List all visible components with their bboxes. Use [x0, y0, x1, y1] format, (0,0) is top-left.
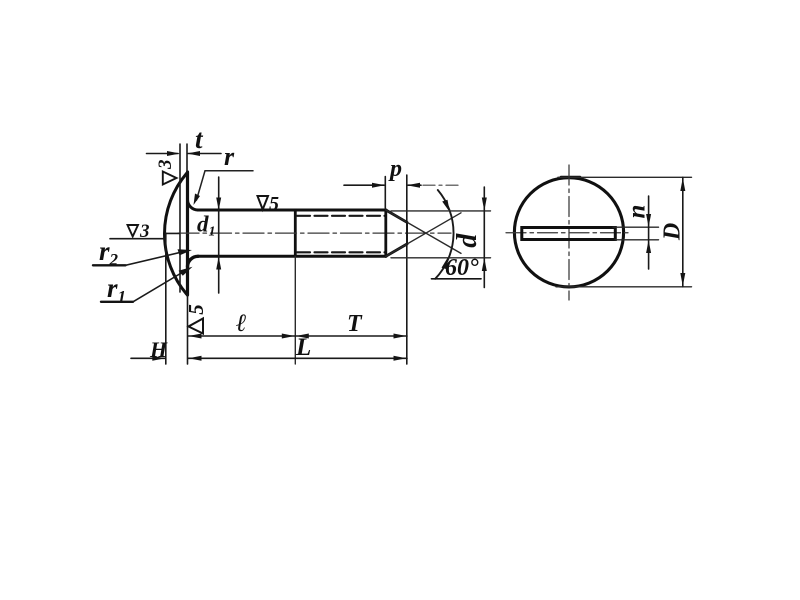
svg-text:t: t: [195, 124, 204, 154]
svg-text:60°: 60°: [445, 255, 479, 281]
slot rectangle: [522, 228, 616, 240]
screw head face line: [186, 172, 189, 295]
60 arc arrow bottom: [442, 257, 449, 269]
60 degree arc: [435, 190, 453, 279]
end view circle: [514, 178, 623, 287]
t arrow left: [167, 151, 180, 156]
D extension bottom: [556, 286, 692, 288]
H dimension tail: [131, 357, 165, 359]
60 arc arrow top: [442, 200, 450, 212]
p dash-dot tail: [423, 184, 458, 186]
T arrow left: [296, 334, 309, 339]
r leader arrow: [194, 194, 201, 206]
cone top side: [386, 210, 407, 222]
p arrow left: [372, 183, 385, 188]
d arrow bottom: [482, 258, 487, 271]
p arrow right: [407, 183, 420, 188]
r2 label underline: [93, 264, 126, 266]
svg-text:T: T: [347, 311, 363, 337]
svg-text:d: d: [452, 233, 483, 248]
n extension top: [613, 226, 659, 228]
d dimension right: extension top: [391, 210, 491, 212]
D arrow top: [680, 178, 685, 191]
t arrow right: [187, 151, 200, 156]
surface mark nabla3 left: [110, 221, 180, 242]
cone bottom side: [386, 244, 407, 256]
L arrow right: [394, 356, 407, 361]
svg-text:p: p: [388, 156, 402, 182]
surface mark nabla3 top rotated: [155, 160, 177, 185]
p extension line cone base: [384, 177, 386, 209]
D arrow bottom: [680, 273, 685, 286]
p dimension line right tail: [408, 184, 421, 186]
r2 arrow: [178, 249, 193, 255]
H arrow: [152, 356, 165, 361]
svg-text:ℓ: ℓ: [236, 310, 247, 337]
svg-text:5: 5: [269, 193, 279, 215]
fillet under head bottom: [188, 256, 199, 267]
d dimension line: [483, 187, 485, 288]
cone construction line lower: [386, 213, 461, 256]
r1 label underline: [101, 301, 133, 303]
horizontal centerline: [506, 232, 632, 234]
l dimension line: [188, 335, 295, 337]
t dimension line left: [147, 153, 179, 155]
fillet r under head top: [188, 200, 199, 211]
r leader shelf: [197, 171, 254, 200]
shank bottom edge: [198, 255, 386, 258]
slot bottom line in head: [179, 144, 181, 292]
n extension bottom: [615, 239, 659, 241]
H extension line apex: [165, 233, 167, 364]
p dimension line left: [344, 184, 384, 186]
head face extension up: [186, 144, 188, 172]
60 label underline: [432, 278, 482, 280]
wire: [93, 124, 692, 364]
L arrow left: [189, 356, 202, 361]
D extension top: [558, 176, 692, 178]
d1 arrow top: [216, 198, 221, 211]
n dimension line: [648, 196, 650, 269]
T arrow right: [394, 334, 407, 339]
surface mark nabla5 under head rotated: [184, 304, 208, 333]
svg-text:L: L: [295, 334, 311, 361]
svg-text:3: 3: [155, 160, 176, 171]
thread dashed line top: [297, 215, 385, 217]
cone construction line upper: [386, 210, 461, 253]
n arrow bottom: [646, 240, 651, 253]
cone base line: [384, 210, 387, 256]
face extension to bottom rows: [187, 295, 189, 364]
d1 arrow bottom: [216, 257, 221, 270]
r1 leader: [133, 269, 188, 302]
shank top edge: [198, 209, 386, 212]
thread dashed line bottom: [297, 251, 385, 253]
thread boundary extension down: [294, 256, 296, 364]
D dimension line: [682, 177, 684, 286]
r1 arrow: [179, 267, 193, 276]
surface mark nabla5 on shank: [258, 193, 280, 215]
r2 leader: [126, 251, 188, 265]
screw axis centerline: [178, 232, 451, 234]
tip extension line: [406, 175, 408, 364]
l arrow left: [189, 334, 202, 339]
L dimension line: [188, 357, 407, 359]
t dimension line right: [188, 153, 221, 155]
svg-text:d1: d1: [197, 212, 216, 240]
circle apex tick: [561, 176, 580, 179]
cone tip flat: [406, 222, 408, 244]
screw head dome arc: [164, 174, 186, 295]
d1 dimension line: [218, 177, 220, 293]
l arrow right: [282, 334, 295, 339]
d arrow top: [482, 198, 487, 211]
svg-text:H: H: [149, 337, 168, 362]
svg-text:D: D: [660, 223, 686, 241]
d extension bottom: [391, 257, 491, 259]
svg-text:r2: r2: [99, 236, 119, 269]
n arrow top: [646, 214, 651, 227]
T dimension line: [295, 335, 407, 337]
svg-text:r: r: [224, 142, 235, 171]
thread boundary line: [294, 210, 297, 256]
svg-text:n: n: [624, 205, 651, 219]
vertical centerline: [568, 165, 570, 300]
